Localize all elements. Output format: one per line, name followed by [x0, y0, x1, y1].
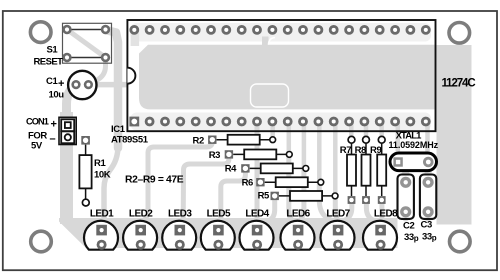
svg-text:LED1: LED1: [90, 208, 114, 219]
svg-text:LED4: LED4: [245, 208, 269, 219]
svg-text:10u: 10u: [49, 90, 65, 101]
svg-text:33p: 33p: [422, 232, 437, 243]
svg-text:LED2: LED2: [129, 208, 153, 219]
svg-text:5V: 5V: [31, 141, 43, 152]
svg-text:LED5: LED5: [207, 208, 231, 219]
svg-text:LED3: LED3: [168, 208, 192, 219]
svg-text:R8: R8: [355, 145, 366, 156]
svg-text:IC1: IC1: [111, 124, 126, 135]
svg-text:R7: R7: [340, 145, 351, 156]
svg-text:R2–R9 = 47E: R2–R9 = 47E: [125, 175, 184, 186]
svg-text:LED6: LED6: [286, 208, 310, 219]
svg-text:C1: C1: [46, 76, 58, 87]
svg-text:AT89S51: AT89S51: [111, 135, 149, 146]
svg-text:LED8: LED8: [374, 208, 398, 219]
svg-text:+: +: [51, 119, 57, 131]
svg-text:S1: S1: [47, 44, 59, 55]
svg-text:11274C: 11274C: [442, 78, 476, 90]
svg-text:R4: R4: [225, 164, 237, 175]
svg-text:C3: C3: [421, 220, 432, 231]
svg-text:R3: R3: [209, 150, 220, 161]
svg-text:+: +: [58, 78, 64, 90]
svg-text:LED7: LED7: [326, 208, 350, 219]
svg-text:R2: R2: [193, 136, 204, 147]
svg-text:C2: C2: [403, 221, 414, 232]
svg-text:R9: R9: [370, 145, 381, 156]
svg-text:11.0592MHz: 11.0592MHz: [389, 140, 439, 150]
svg-text:R5: R5: [258, 191, 270, 202]
svg-text:RESET: RESET: [34, 57, 64, 68]
svg-text:–: –: [50, 133, 56, 145]
svg-text:33p: 33p: [404, 232, 419, 243]
svg-text:10K: 10K: [94, 170, 111, 181]
svg-text:R1: R1: [94, 158, 106, 169]
svg-text:CON1: CON1: [26, 117, 49, 127]
svg-text:R6: R6: [242, 177, 253, 188]
